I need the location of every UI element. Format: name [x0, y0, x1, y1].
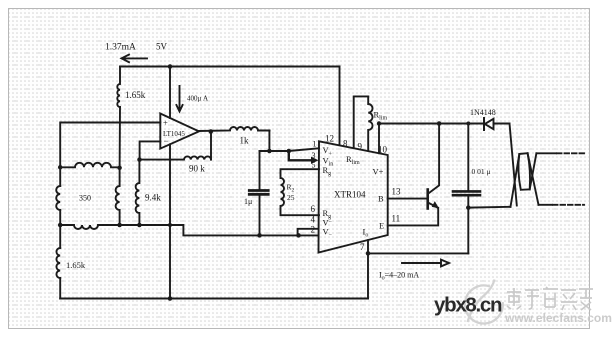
svg-text:90 k: 90 k	[189, 164, 205, 174]
wire: diode to twisted pair top	[494, 123, 510, 125]
junction: 5V rail / op-amp supply	[168, 64, 173, 69]
annotation arrow: 1.37mA current direction	[122, 55, 148, 63]
wire: op-amp lower supply to ground rail	[169, 144, 171, 298]
junction: pin 3 branch node	[287, 149, 292, 154]
capacitor C2 0.01u plates	[453, 191, 480, 195]
wire: op-amp supply drop from 5V rail	[169, 67, 171, 119]
wire: twisted pair top dashed continuation	[557, 152, 584, 154]
transistor Q1 emitter	[428, 203, 438, 208]
capacitor C1 1u plates	[249, 191, 268, 195]
junction: bridge top-right node	[117, 166, 122, 171]
wire: pin 8 riser of Rlim loop	[354, 96, 369, 147]
watermark chinese characters (approximated glyph strokes)	[507, 287, 593, 310]
twisted pair crossover right up-slant	[530, 153, 537, 189]
wire: bridge left vertical lower segment	[59, 210, 61, 248]
twisted pair crossover left down-slant	[510, 124, 517, 206]
transistor Q1 collector riser	[428, 124, 439, 194]
junction: Rlim node at pin 10	[377, 121, 381, 125]
svg-text:350: 350	[79, 194, 91, 203]
svg-text:6: 6	[311, 204, 316, 214]
junction: supply line on Vminus wire	[168, 223, 172, 227]
junction: pin 7 Io return node	[366, 251, 371, 256]
svg-text:E: E	[379, 221, 384, 231]
wire: emitter down to pin 11	[388, 208, 439, 226]
wire: pin 13 to transistor base	[388, 198, 428, 200]
junction: pin 2 jog on Vminus rail	[296, 233, 301, 238]
svg-text:9.4k: 9.4k	[145, 193, 161, 203]
arrowhead: signal into pin 3	[311, 157, 319, 164]
svg-text:0 01 μ: 0 01 μ	[472, 167, 491, 176]
wire: bridge bottom node to Vminus network	[120, 225, 319, 235]
wire: capacitor C1 to Vminus rail	[259, 196, 261, 236]
resistor 1.65k lower coil	[56, 248, 60, 278]
wire: 5V top rail	[120, 66, 340, 68]
svg-text:3: 3	[312, 151, 316, 160]
svg-text:V+: V+	[373, 167, 384, 177]
wire: pin 12 from 5V rail	[339, 67, 341, 146]
wire: pin 7 node to output return	[368, 252, 468, 254]
junction: bridge bottom-left node	[58, 223, 63, 228]
wire: pin 10 riser to loop supply node	[378, 124, 380, 154]
wire: cap C2 bottom to return node	[467, 196, 469, 253]
svg-text:XTR104: XTR104	[334, 190, 366, 200]
svg-text:12: 12	[325, 134, 334, 144]
svg-text:1.65k: 1.65k	[125, 90, 146, 100]
twisted pair barrel	[518, 153, 530, 190]
wire: loop supply top rail to diode	[379, 123, 483, 125]
wire: node A to XTR104 pin 1	[260, 148, 320, 151]
wire: twisted pair bottom dashed continuation	[553, 204, 584, 206]
transistor Q1 base bar	[426, 190, 429, 209]
svg-text:1k: 1k	[240, 136, 250, 146]
svg-text:1.37mA: 1.37mA	[105, 43, 136, 53]
wire: feedback riser to op-amp output	[210, 132, 212, 160]
svg-text:13: 13	[392, 187, 402, 197]
wire: ground bottom rail	[60, 298, 368, 300]
wire: 1.65k down to bridge top-right node	[119, 107, 121, 167]
wire: 1k output down to node A	[268, 131, 270, 152]
svg-text:5V: 5V	[156, 42, 168, 52]
twisted pair crossover left up-slant	[511, 154, 520, 207]
junction: cap C2 bottom output node	[466, 205, 471, 210]
annotation arrow: 400uA current into op-amp	[176, 86, 182, 111]
svg-text:4: 4	[311, 215, 316, 225]
resistor 350 bridge left arm coil	[56, 186, 60, 210]
wire: Io return to ground rail	[367, 253, 369, 298]
resistor 90k feedback coil	[140, 156, 211, 159]
junction: bridge bottom-right node	[117, 223, 122, 228]
arrowhead: emitter arrow	[432, 201, 439, 208]
resistor bridge right arm coil	[116, 167, 120, 225]
wire: twisted pair bottom-right lead	[539, 204, 553, 206]
resistor R2 25 gain-set loop	[281, 169, 320, 215]
svg-text:1μ: 1μ	[244, 197, 252, 206]
resistor Rlim coil into pin 9	[368, 96, 372, 150]
svg-text:B: B	[378, 194, 384, 204]
svg-text:5: 5	[312, 161, 316, 170]
svg-text:25: 25	[287, 193, 295, 202]
junction: collector on loop rail	[437, 121, 442, 126]
wire: node A left corner to cap C1	[259, 151, 261, 189]
wire: branch down to pin 3 signal arrow	[289, 151, 314, 160]
svg-text:10: 10	[378, 145, 388, 155]
junction: bridge top-left node	[58, 165, 63, 170]
svg-text:1.65k: 1.65k	[66, 260, 86, 270]
svg-text:+: +	[163, 118, 168, 128]
diode D1 1N4148 triangle	[485, 119, 494, 129]
svg-text:www.elecfans.com: www.elecfans.com	[504, 311, 612, 325]
twisted pair crossover right down-slant	[528, 153, 539, 205]
junction: cap C2 on loop rail	[466, 122, 470, 126]
svg-text:11: 11	[392, 214, 401, 224]
svg-text:ybx8.cn: ybx8.cn	[434, 294, 502, 317]
junction: inverting input / 9.4k / 90k node	[137, 157, 142, 162]
junction: cap C1 on Vminus rail	[257, 233, 262, 238]
junction: node A after 1k	[267, 149, 272, 154]
svg-text:7: 7	[360, 242, 365, 252]
resistor bridge top arm coil	[60, 163, 119, 167]
junction: 9.4k bottom node	[137, 223, 142, 228]
svg-text:1: 1	[313, 140, 317, 149]
op-amp U1 LT1045 triangle	[160, 114, 199, 149]
wire: op-amp inverting input	[140, 141, 161, 159]
wire: pin 2 jog	[298, 229, 319, 236]
svg-text:2: 2	[311, 225, 316, 235]
svg-text:8: 8	[343, 139, 348, 149]
svg-text:400μ A: 400μ A	[187, 95, 208, 103]
resistor 1k output coil	[199, 127, 270, 131]
svg-text:9: 9	[358, 142, 363, 152]
svg-text:1N4148: 1N4148	[470, 108, 496, 117]
wire: op-amp non-inverting input from bridge left node	[60, 123, 160, 187]
wire: left vertical to bottom rail	[59, 278, 61, 299]
svg-text:LT1045: LT1045	[163, 130, 185, 138]
resistor bridge bottom arm coil	[60, 225, 119, 229]
wire: pin 7 Io return stub	[367, 240, 369, 253]
wire: cap C2 top feed from loop rail	[467, 124, 469, 190]
annotation arrow: Io=4-20mA direction	[402, 260, 449, 267]
IC XTR104 body trapezoid	[319, 141, 388, 252]
wire: return node to twisted pair bottom	[468, 206, 510, 209]
resistor 9.4k coil	[136, 160, 140, 225]
diode D1 1N4148 cathode bar	[483, 118, 485, 130]
junction: supply line on ground rail	[168, 296, 173, 301]
watermark swirl logo	[465, 280, 503, 324]
resistor 1.65k upper on 5V feed line	[117, 67, 120, 108]
wire: twisted pair top-right lead	[536, 152, 556, 154]
junction: op-amp output node	[209, 129, 214, 134]
